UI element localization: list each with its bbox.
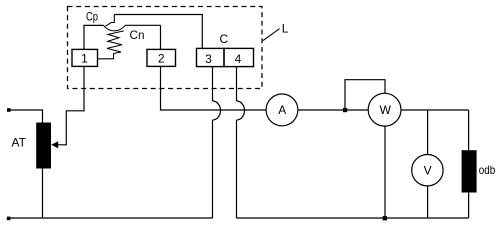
wire AT top lead <box>42 109 44 123</box>
svg-text:4: 4 <box>235 52 242 66</box>
wire top to terminal T3 <box>114 15 202 49</box>
wire to terminal T2 <box>160 25 162 49</box>
terminal box 1 <box>72 49 98 66</box>
svg-text:odb: odb <box>479 163 496 177</box>
wire AT bottom lead <box>42 168 44 218</box>
input terminal bottom dot <box>7 217 11 221</box>
voltmeter V circle <box>412 155 443 186</box>
wire wattmeter to odb corner <box>401 109 469 111</box>
wire feed from top to node <box>106 15 115 27</box>
wire box1 bottom jog to wiper <box>66 67 84 111</box>
wire wattmeter bottom lead <box>384 126 386 218</box>
wire voltmeter tap <box>427 110 429 155</box>
wire hop of box4 lead over row <box>237 101 245 120</box>
wire ammeter to wattmeter <box>298 109 368 111</box>
svg-text:A: A <box>278 103 286 117</box>
wire bottom-right bus <box>237 217 469 219</box>
svg-text:L: L <box>282 22 289 36</box>
svg-text:C: C <box>220 32 229 46</box>
wattmeter W circle <box>368 93 401 126</box>
svg-text:2: 2 <box>158 52 165 66</box>
junction dot wattmeter bottom on bus <box>383 216 387 220</box>
wire Cp sag curve <box>104 25 161 31</box>
terminal box 3 <box>197 48 225 66</box>
terminal box 2 <box>147 49 176 66</box>
svg-text:1: 1 <box>81 52 88 66</box>
wire box2 bottom to ammeter row <box>161 66 266 110</box>
svg-text:Cp: Cp <box>86 12 98 24</box>
ammeter A circle <box>266 94 298 126</box>
svg-text:AT: AT <box>12 136 27 150</box>
svg-text:3: 3 <box>205 52 212 66</box>
wire wiper arm <box>58 110 67 145</box>
dashed enclosure box L <box>68 7 263 89</box>
wire box4 lead to right bus <box>236 120 238 218</box>
wire input terminal to AT <box>10 109 43 111</box>
wire voltmeter bottom lead <box>427 186 429 218</box>
autotransformer AT body <box>36 123 51 169</box>
label L leader line <box>263 29 280 41</box>
wire box3 lead to left bus <box>212 120 214 218</box>
terminal T1 top wire <box>84 25 104 49</box>
wire box3 bottom <box>212 67 214 101</box>
wire hop of box3 lead over row <box>213 101 221 120</box>
svg-text:V: V <box>424 163 432 177</box>
resistor Cn zigzag <box>98 31 124 59</box>
wire wattmeter voltage-coil loop <box>345 80 385 110</box>
wiper arrowhead <box>51 141 58 148</box>
svg-text:Cn: Cn <box>130 30 145 42</box>
wire box4 bottom <box>236 67 238 101</box>
wire odb bottom lead <box>468 193 470 219</box>
input terminal top dot <box>7 108 11 112</box>
wire bottom-left bus <box>9 217 213 219</box>
junction dot wattmeter loop <box>343 108 347 112</box>
svg-text:W: W <box>380 103 392 117</box>
wire odb top lead <box>468 110 470 150</box>
terminal box 4 <box>224 48 254 66</box>
load odb body <box>462 150 477 192</box>
